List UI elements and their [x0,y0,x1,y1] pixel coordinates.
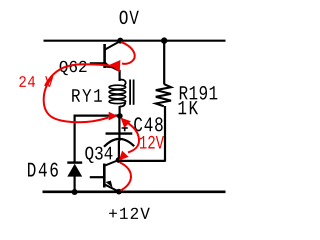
label D46 [28,163,58,177]
red arc through C48 (12V) [128,124,139,153]
Q62 base lead wire [90,62,105,64]
coil bottom hook [120,103,126,107]
Q34 collector lead (to node B) [104,160,118,166]
label 0V [120,11,139,25]
label R191 [180,86,218,100]
red arrowhead into node A [109,112,118,121]
label 24 V [19,76,53,87]
C48 top lead [118,116,120,134]
red annotation: lower C-loop to node A [44,78,109,122]
coil loop 1 [109,85,126,89]
wire coil to node A [118,106,120,116]
label RY1 [72,89,102,102]
R191 zigzag body [156,84,171,106]
D46 cathode bar [67,161,82,163]
Q62 base bar [103,44,106,68]
transistor Q62 [90,42,120,72]
label Q62 [60,61,87,75]
red arrowhead into Q62 collector [110,60,121,73]
D46 anode wire [73,176,75,192]
wire Q62 emitter to relay coil [118,70,120,81]
red annotation: upper swoosh into Q62 [45,42,135,86]
wire left branch vertical (to D46) [73,115,75,164]
coil loop 4 [109,100,126,104]
C48 curved bottom plate [104,139,134,147]
red arc through Q34 [120,163,131,191]
R191 top wire [163,41,165,85]
resistor R191 [156,41,171,162]
Q62 emitter lead [105,64,120,72]
node: top rail / R191 junction [161,37,167,43]
C48 top plate [106,132,133,134]
+12V rail (bottom) [43,191,226,194]
C48 polarity plus sign [122,125,128,131]
diode D46 [67,163,82,192]
Q34 base bar [103,164,106,188]
label C48 [134,117,163,131]
Q34 emitter lead (to +12V rail) [104,184,119,191]
Q62 emitter arrow [105,62,113,69]
node A (RY1 / C48 / left branch) [117,113,123,119]
relay core bar 2 [133,80,135,105]
coil loop 2 [109,90,126,94]
label +12V [109,208,150,219]
coil loop 3 [109,95,126,99]
node B (C48 / Q34 collector / R191) [116,157,122,163]
red arrowhead into node A (top of 12V arc) [121,118,131,128]
wire node B to R191 branch [119,160,166,162]
wire node A to left branch [75,114,120,116]
Q34 base lead wire [90,176,105,178]
coil top hook [120,79,126,85]
red curl from top rail dot into arrow [121,42,135,64]
R191 bottom wire [164,106,166,162]
D46 triangle [67,164,82,177]
relay core bar 1 [129,80,131,105]
C48 middle lead segment [118,134,120,142]
label 12V [140,136,164,149]
relay coil RY1 [109,79,134,106]
Q34 emitter arrow (PNP, points toward base) [106,181,113,188]
label Q34 [85,147,112,163]
C48 bottom lead [118,141,120,160]
node: bottom rail / D46 junction [72,189,78,195]
Q62 collector lead (to 0V rail) [105,42,120,50]
label 1K [179,101,199,114]
0V rail (top) [44,40,226,42]
transistor Q34 [90,160,119,192]
red arrowhead into node B (bottom of 12V arc) [119,151,129,161]
node: top rail / Q62 collector junction [117,38,123,44]
capacitor C48 [104,116,134,160]
red swoosh from 24V through Q62 label into arrow [45,64,112,86]
node: bottom rail / Q34 emitter junction [116,189,122,195]
